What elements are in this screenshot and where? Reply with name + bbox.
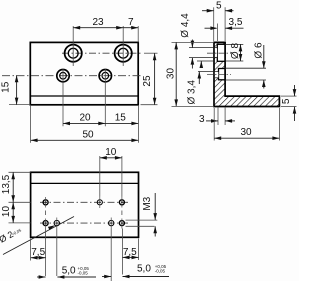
through hole 3.4 gap [215, 72, 218, 78]
svg-text:25: 25 [142, 75, 153, 87]
svg-text:23: 23 [92, 17, 104, 28]
svg-text:5: 5 [216, 1, 222, 12]
svg-text:15: 15 [115, 112, 127, 123]
dim Ø3,4 [198, 72, 200, 85]
svg-text:Ø 8: Ø 8 [230, 43, 241, 60]
dim 15 left [9, 104, 30, 106]
dim 7,5 right [123, 256, 139, 258]
dim 7,5 left [31, 257, 46, 259]
dim 30 left [172, 41, 215, 43]
dim 50 bottom [31, 139, 139, 141]
hole bottom-left [57, 70, 69, 82]
svg-text:7: 7 [128, 17, 134, 28]
svg-text:-0,05: -0,05 [155, 269, 166, 274]
mystery arrow at 201 [200, 61, 202, 68]
center line top row [62, 52, 142, 54]
svg-text:Ø 6: Ø 6 [253, 42, 264, 59]
hole edge extension lines (right side) [225, 43, 243, 45]
L-section filled with hatching [214, 42, 279, 106]
dim 25 right [144, 52, 158, 54]
holes: M3 (thick rim + dot) row1 [43, 200, 48, 205]
dim 5,0 right [102, 276, 111, 278]
hole bottom-right [99, 70, 111, 82]
svg-text:10: 10 [1, 206, 12, 218]
svg-text:50: 50 [82, 129, 94, 140]
svg-text:3: 3 [199, 114, 205, 125]
svg-text:5,0: 5,0 [137, 264, 151, 275]
leader Ø2 [3, 217, 74, 255]
dim 23 [73, 27, 123, 29]
left dims 13,5 and 10 [9, 171, 31, 173]
dim 30 bottom [213, 108, 215, 141]
inner edge line [31, 182, 139, 184]
center line bottom row [2, 75, 142, 77]
counterbore top (white box) [217, 44, 225, 61]
dim 5,0 left [37, 276, 46, 278]
hole top-left [65, 45, 82, 62]
dim 5 top [213, 7, 215, 41]
plate outline [30, 42, 138, 104]
step line [30, 95, 138, 97]
svg-text:20: 20 [79, 112, 91, 123]
svg-text:-0,05: -0,05 [78, 270, 89, 275]
vertical hole ticks [45, 197, 47, 208]
svg-text:5,0: 5,0 [62, 265, 76, 276]
plate outline [31, 172, 139, 237]
svg-text:15: 15 [1, 81, 12, 93]
dim Ø4,4 [191, 40, 193, 48]
svg-text:5: 5 [281, 98, 292, 104]
dim 7 [123, 27, 138, 29]
svg-text:30: 30 [166, 68, 177, 80]
svg-text:3,5: 3,5 [229, 17, 243, 28]
center dashes [207, 52, 231, 54]
row2 [43, 221, 48, 226]
hole edge extension lines (left side) [189, 47, 217, 49]
dim 10 top [99, 156, 101, 197]
counterbore bottom (white box) [219, 69, 225, 80]
vertical center/extension lines through holes [72, 26, 74, 66]
hole top-right [115, 45, 132, 62]
center lines [40, 201, 128, 203]
dim Ø8 right [240, 44, 242, 61]
svg-text:Ø 3,4: Ø 3,4 [187, 80, 198, 105]
dim 3,5 [216, 24, 218, 42]
svg-text:M3: M3 [142, 196, 153, 210]
svg-text:10: 10 [105, 147, 117, 158]
svg-text:7,5: 7,5 [31, 247, 45, 258]
svg-text:7,5: 7,5 [123, 247, 137, 258]
svg-text:Ø 4,4: Ø 4,4 [180, 13, 191, 38]
dim Ø6 right [263, 45, 265, 68]
through hole 4.4 gap [215, 48, 217, 57]
dim 20 bottom [63, 122, 105, 124]
svg-text:13,5: 13,5 [1, 174, 12, 194]
svg-text:30: 30 [240, 127, 252, 138]
M3 dim right [126, 219, 158, 221]
dim 15 bottom [105, 122, 138, 124]
dim 3 bottom [217, 107, 219, 125]
dim 5 right [281, 95, 297, 97]
bottom dims [30, 239, 32, 261]
